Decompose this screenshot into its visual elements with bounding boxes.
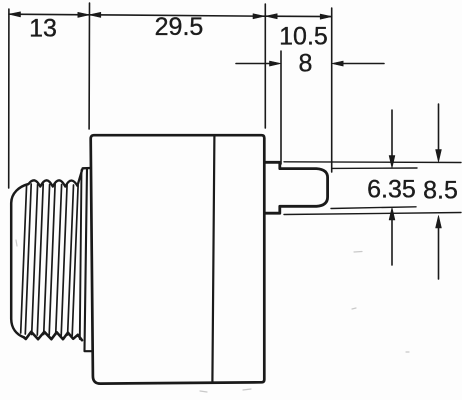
- dimension line 10.5: [266, 15, 332, 17]
- arrowhead 13 right: [78, 12, 90, 17]
- extension line, shaft top edge (8.5 top): [284, 161, 461, 164]
- thread flank line 7: [56, 185, 62, 335]
- bushing top thread crest wave: [29, 168, 91, 187]
- extension line for 10.5/8 dims, right: [331, 8, 333, 172]
- svg-text:13: 13: [29, 15, 57, 43]
- extension line, flat bottom edge (6.35 bottom): [331, 207, 416, 209]
- svg-text:6.35: 6.35: [367, 176, 416, 204]
- svg-text:10.5: 10.5: [279, 23, 328, 51]
- 8 dim right arrow line: [342, 63, 384, 65]
- thread flank line 3: [32, 185, 38, 335]
- extension line, flat top edge (6.35 top): [332, 167, 417, 169]
- arrowhead 29.5 left: [89, 12, 101, 17]
- extension line for 8 dim, left: [280, 51, 282, 164]
- thread flank line 1: [21, 185, 27, 333]
- body outline: [91, 135, 265, 383]
- 8 dim left arrowhead (points right, tip on x=281): [270, 61, 282, 66]
- thread flank line 9: [68, 185, 74, 335]
- arrowhead 10.5 left: [266, 14, 278, 19]
- 8 dim left arrow line: [236, 63, 271, 65]
- 6.35 up arrowhead: [389, 208, 395, 221]
- collar left edge (thread end line): [80, 170, 82, 339]
- thread flank line 2: [25, 184, 31, 334]
- thread flank line 10: [72, 186, 78, 336]
- faint scan smudges: [16, 240, 409, 392]
- extension line between 13 and 29.5: [88, 3, 90, 129]
- 8.5 down arrowhead: [436, 150, 442, 163]
- arrowhead 29.5 right: [253, 14, 265, 19]
- extension line left of bushing (13 dim, left): [8, 9, 10, 188]
- arrowhead 13 left: [9, 12, 21, 17]
- 6.35 down arrow line: [391, 110, 393, 157]
- extension line, shaft bottom edge (8.5 bottom): [284, 213, 461, 215]
- 8.5 down arrow line: [438, 104, 440, 151]
- svg-text:8: 8: [299, 50, 313, 78]
- bushing bottom thread zigzag: [24, 332, 82, 340]
- body internal vertical line: [212, 136, 214, 382]
- 8.5 up arrow line: [438, 227, 440, 279]
- thread flank line 6: [49, 184, 55, 335]
- dimension line 13: [9, 13, 89, 16]
- 8.5 up arrowhead: [436, 216, 442, 229]
- collar inner line: [85, 169, 93, 351]
- arrowhead 10.5 right: [320, 14, 332, 19]
- 6.35 down arrowhead: [389, 156, 395, 169]
- 8 dim right arrowhead (points left, tip on x=331.7): [332, 61, 344, 66]
- extension line above body right edge (29.5/10.5 junction): [264, 4, 266, 128]
- svg-text:29.5: 29.5: [155, 13, 204, 41]
- thread flank line 5: [44, 185, 50, 335]
- thread flank line 4: [37, 184, 43, 335]
- svg-text:8.5: 8.5: [423, 177, 458, 205]
- shaft with flats: [265, 162, 328, 213]
- 6.35 up arrow line: [391, 219, 393, 265]
- dimension line 29.5: [89, 15, 264, 16]
- bushing left cap outline: [11, 184, 28, 337]
- thread flank line 8: [61, 184, 67, 336]
